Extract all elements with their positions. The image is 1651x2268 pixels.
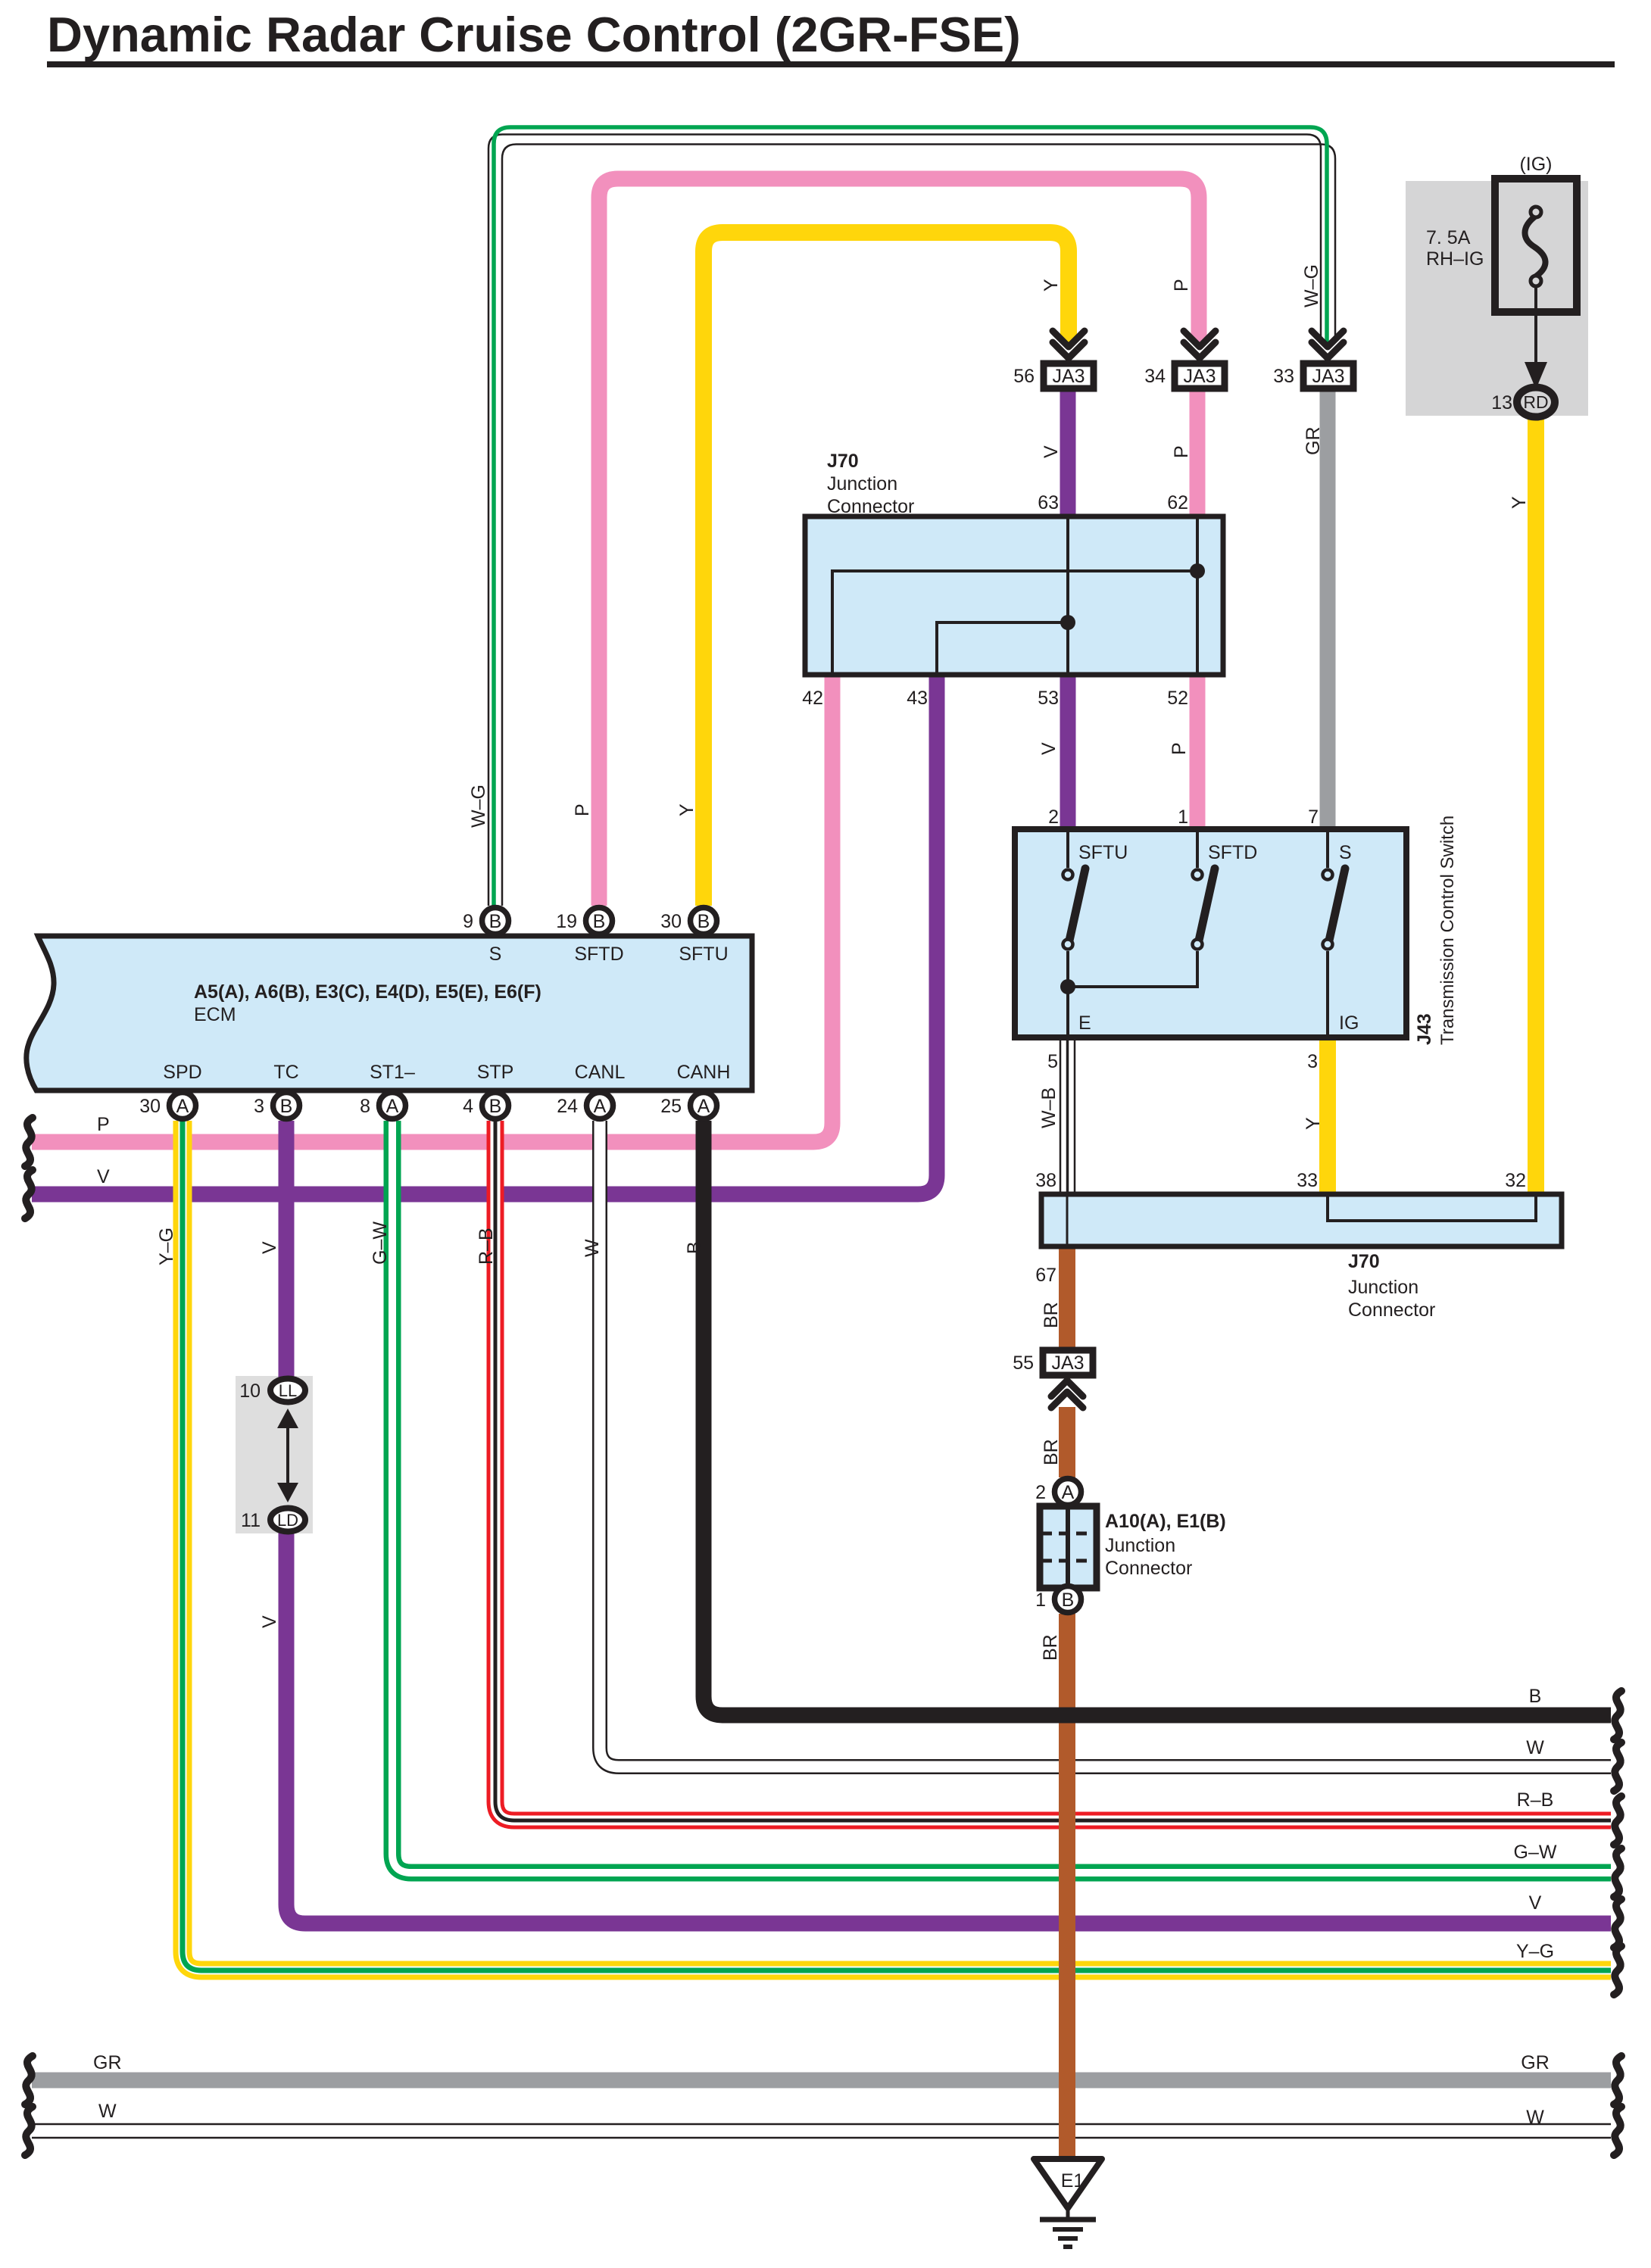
svg-text:53: 53 — [1038, 688, 1059, 709]
svg-text:B: B — [698, 911, 710, 932]
svg-text:B: B — [684, 1241, 705, 1254]
svg-text:1: 1 — [1178, 806, 1188, 828]
svg-text:GR: GR — [1521, 2052, 1550, 2073]
svg-text:SPD: SPD — [163, 1062, 201, 1083]
svg-text:W: W — [1526, 1737, 1544, 1758]
svg-text:R–B: R–B — [476, 1228, 497, 1265]
svg-text:A: A — [698, 1096, 710, 1117]
svg-text:P: P — [1171, 445, 1192, 458]
svg-text:B: B — [593, 911, 606, 932]
svg-text:Y: Y — [1509, 496, 1530, 509]
svg-text:32: 32 — [1505, 1170, 1526, 1191]
svg-text:LD: LD — [277, 1511, 298, 1530]
svg-text:2: 2 — [1035, 1482, 1046, 1503]
svg-text:V: V — [97, 1166, 110, 1187]
svg-text:JA3: JA3 — [1051, 1352, 1084, 1374]
svg-text:1: 1 — [1035, 1589, 1046, 1611]
svg-text:Y: Y — [676, 803, 698, 816]
svg-text:24: 24 — [557, 1096, 578, 1117]
svg-text:S: S — [1339, 842, 1352, 863]
svg-text:SFTD: SFTD — [574, 944, 623, 965]
svg-text:3: 3 — [1307, 1051, 1318, 1072]
svg-text:A5(A), A6(B), E3(C), E4(D), E5: A5(A), A6(B), E3(C), E4(D), E5(E), E6(F) — [194, 981, 541, 1003]
svg-text:STP: STP — [477, 1062, 514, 1083]
svg-text:JA3: JA3 — [1183, 366, 1216, 387]
svg-text:56: 56 — [1013, 366, 1035, 387]
svg-text:G–W: G–W — [370, 1221, 391, 1265]
svg-text:V: V — [259, 1615, 280, 1628]
svg-text:TC: TC — [273, 1062, 298, 1083]
svg-text:P: P — [572, 803, 593, 816]
svg-text:7: 7 — [1308, 806, 1319, 828]
svg-text:SFTU: SFTU — [1078, 842, 1128, 863]
svg-text:33: 33 — [1273, 366, 1294, 387]
svg-text:BR: BR — [1041, 1302, 1062, 1328]
svg-text:R–B: R–B — [1517, 1789, 1554, 1811]
svg-text:W–B: W–B — [1038, 1087, 1060, 1128]
svg-text:Connector: Connector — [827, 496, 914, 517]
svg-text:B: B — [1529, 1686, 1542, 1707]
svg-text:A10(A), E1(B): A10(A), E1(B) — [1105, 1511, 1226, 1532]
svg-text:7. 5A: 7. 5A — [1426, 227, 1471, 248]
svg-text:CANL: CANL — [575, 1062, 626, 1083]
svg-text:34: 34 — [1144, 366, 1166, 387]
svg-text:10: 10 — [239, 1380, 261, 1402]
svg-text:A: A — [176, 1096, 189, 1117]
svg-text:B: B — [489, 911, 502, 932]
svg-text:W: W — [98, 2101, 117, 2122]
svg-text:A: A — [386, 1096, 399, 1117]
svg-text:E1: E1 — [1061, 2170, 1085, 2192]
svg-text:19: 19 — [556, 911, 577, 932]
svg-text:GR: GR — [93, 2052, 122, 2073]
svg-text:Junction: Junction — [827, 473, 897, 494]
svg-text:30: 30 — [139, 1096, 161, 1117]
svg-text:67: 67 — [1035, 1265, 1056, 1286]
svg-text:ST1–: ST1– — [370, 1062, 415, 1083]
svg-text:V: V — [1038, 742, 1060, 755]
svg-text:52: 52 — [1167, 688, 1188, 709]
svg-text:Junction: Junction — [1105, 1535, 1175, 1556]
svg-text:V: V — [1041, 445, 1062, 458]
svg-text:S: S — [489, 944, 502, 965]
svg-text:42: 42 — [802, 688, 823, 709]
svg-text:RH–IG: RH–IG — [1426, 248, 1484, 270]
svg-text:A: A — [1062, 1482, 1075, 1503]
svg-text:Y: Y — [1041, 279, 1062, 292]
svg-text:BR: BR — [1040, 1634, 1061, 1661]
svg-text:ECM: ECM — [194, 1004, 236, 1025]
svg-text:Y: Y — [1303, 1117, 1324, 1130]
svg-text:GR: GR — [1303, 427, 1324, 456]
svg-text:63: 63 — [1038, 492, 1059, 513]
svg-text:B: B — [489, 1096, 502, 1117]
svg-text:W: W — [1526, 2107, 1544, 2128]
svg-text:A: A — [594, 1096, 607, 1117]
svg-text:Connector: Connector — [1348, 1299, 1435, 1321]
svg-text:Y–G: Y–G — [1516, 1941, 1554, 1962]
svg-text:B: B — [1062, 1589, 1075, 1611]
svg-text:Junction: Junction — [1348, 1277, 1418, 1298]
svg-text:BR: BR — [1041, 1439, 1062, 1465]
svg-text:JA3: JA3 — [1312, 366, 1344, 387]
svg-text:SFTU: SFTU — [679, 944, 728, 965]
svg-text:33: 33 — [1297, 1170, 1318, 1191]
svg-text:43: 43 — [907, 688, 928, 709]
svg-text:G–W: G–W — [1514, 1842, 1557, 1863]
svg-text:P: P — [1169, 742, 1190, 755]
svg-text:62: 62 — [1167, 492, 1188, 513]
svg-text:V: V — [1529, 1892, 1542, 1914]
svg-text:E: E — [1078, 1012, 1091, 1034]
svg-text:5: 5 — [1047, 1051, 1058, 1072]
svg-text:J43: J43 — [1414, 1013, 1435, 1045]
svg-text:B: B — [280, 1096, 293, 1117]
svg-text:8: 8 — [360, 1096, 370, 1117]
svg-text:J70: J70 — [827, 451, 859, 472]
svg-text:RD: RD — [1523, 392, 1548, 412]
svg-text:30: 30 — [660, 911, 682, 932]
svg-text:(IG): (IG) — [1519, 154, 1552, 175]
svg-text:J70: J70 — [1348, 1251, 1380, 1272]
svg-text:P: P — [97, 1114, 110, 1135]
svg-text:P: P — [1171, 279, 1192, 292]
svg-text:IG: IG — [1339, 1012, 1359, 1034]
svg-text:25: 25 — [660, 1096, 682, 1117]
svg-text:W: W — [582, 1239, 603, 1257]
svg-text:V: V — [259, 1241, 280, 1254]
svg-text:13: 13 — [1491, 392, 1512, 413]
svg-text:JA3: JA3 — [1052, 366, 1085, 387]
svg-text:W–G: W–G — [1301, 264, 1322, 307]
svg-text:Y–G: Y–G — [156, 1228, 177, 1265]
svg-text:Dynamic Radar Cruise Control (: Dynamic Radar Cruise Control (2GR-FSE) — [47, 7, 1021, 62]
svg-text:CANH: CANH — [677, 1062, 731, 1083]
svg-text:55: 55 — [1013, 1352, 1034, 1374]
svg-text:Transmission Control Switch: Transmission Control Switch — [1437, 816, 1458, 1045]
svg-text:Connector: Connector — [1105, 1558, 1192, 1579]
svg-text:2: 2 — [1048, 806, 1059, 828]
svg-text:4: 4 — [463, 1096, 473, 1117]
svg-text:38: 38 — [1035, 1170, 1056, 1191]
svg-text:W–G: W–G — [468, 785, 489, 828]
svg-text:11: 11 — [241, 1510, 261, 1531]
svg-text:SFTD: SFTD — [1208, 842, 1257, 863]
svg-text:LL: LL — [279, 1381, 297, 1400]
svg-text:9: 9 — [463, 911, 473, 932]
svg-text:3: 3 — [254, 1096, 264, 1117]
